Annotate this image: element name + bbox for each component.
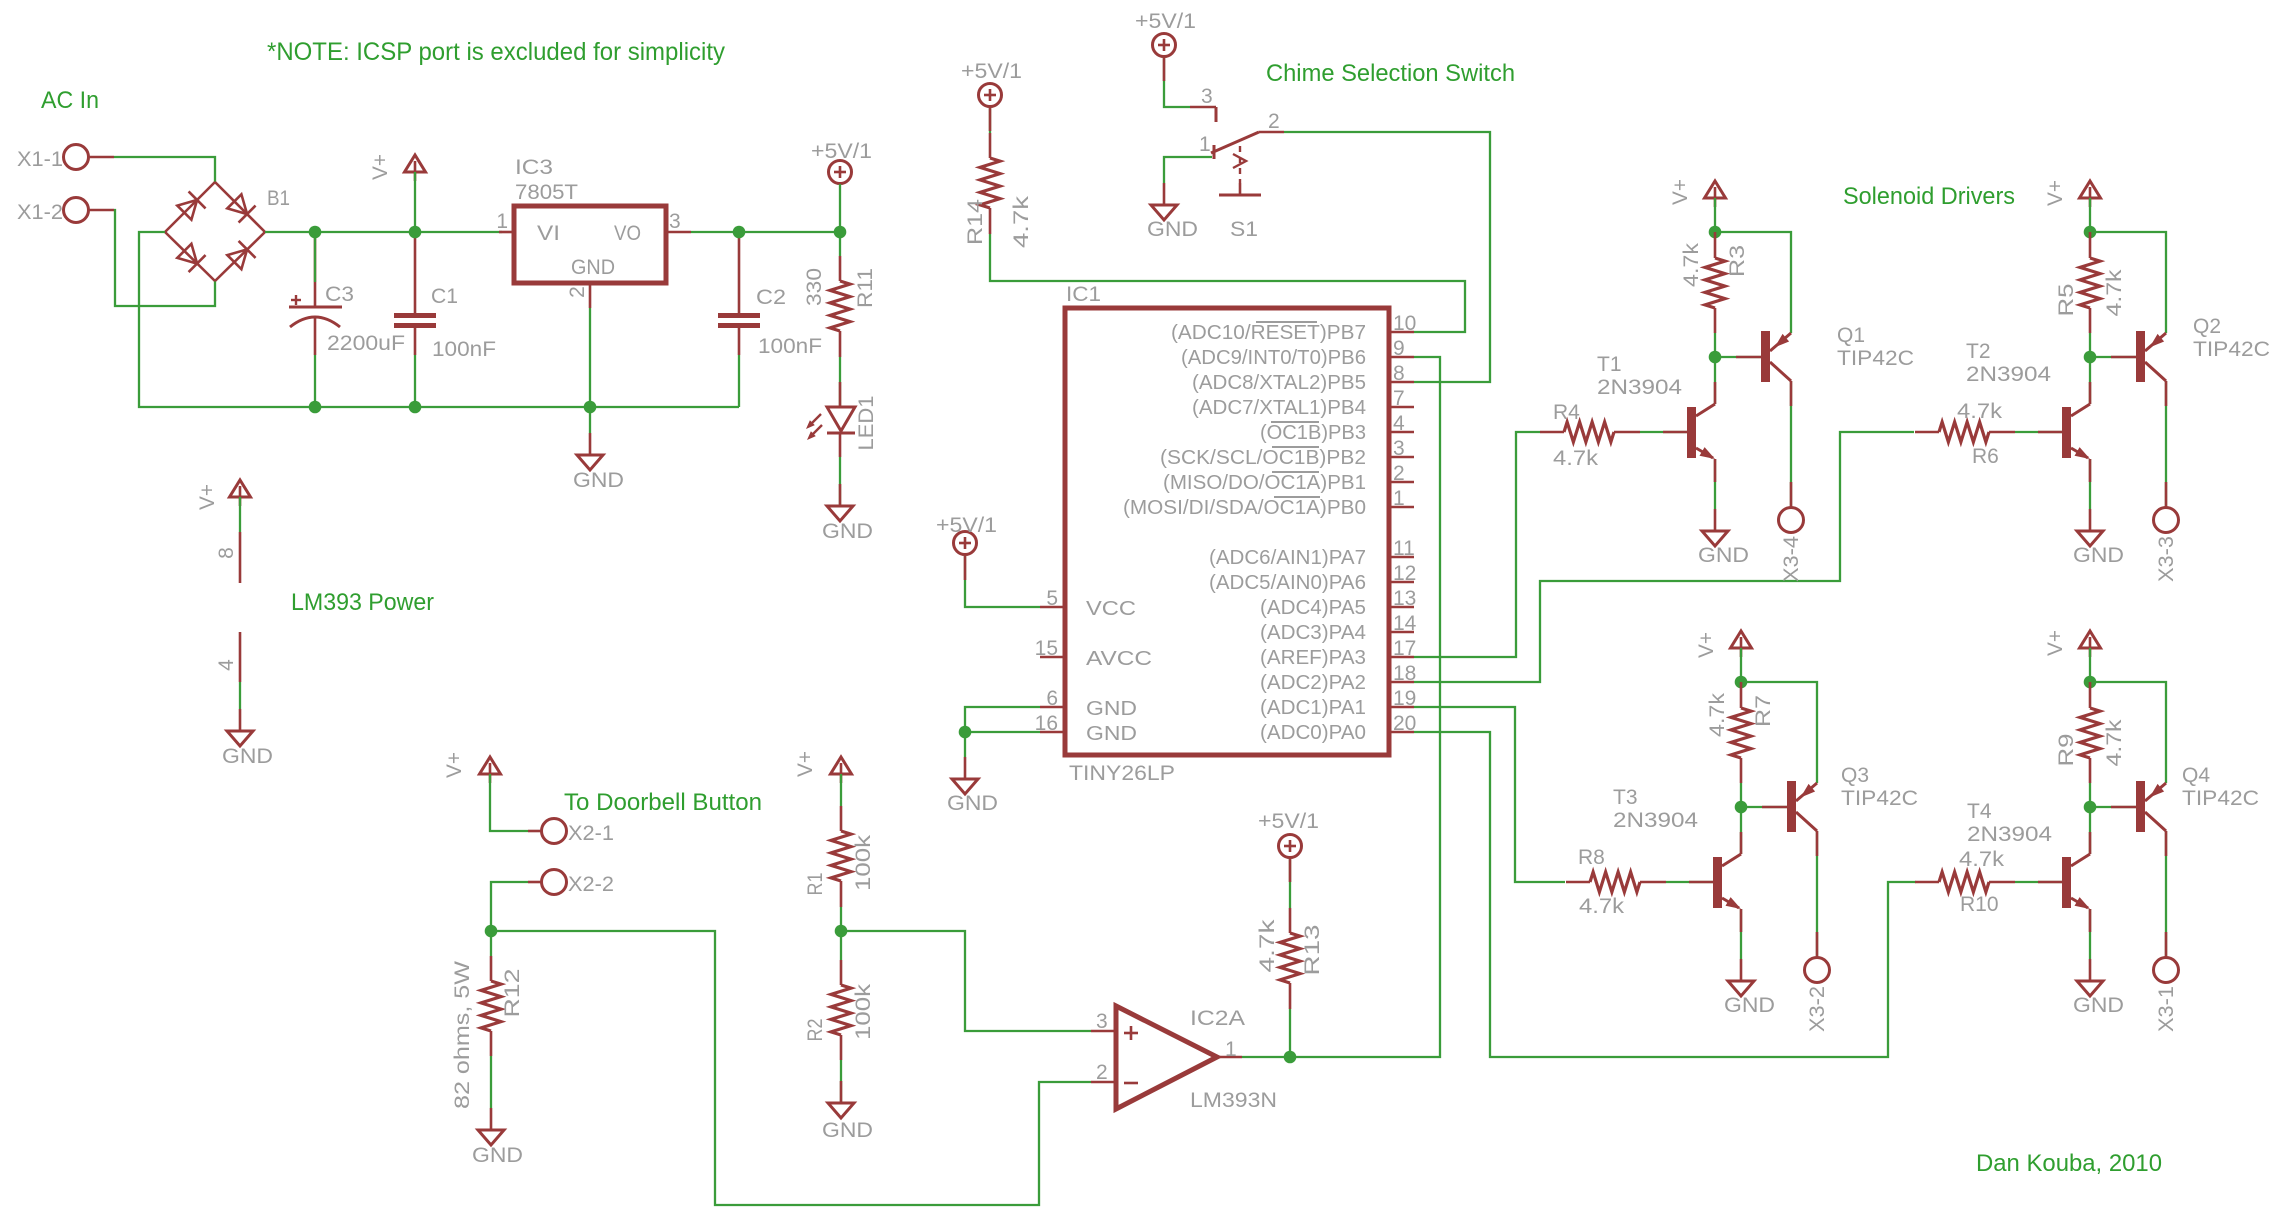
svg-text:(ADC5/AIN0)PA6: (ADC5/AIN0)PA6 — [1209, 572, 1366, 594]
IC1 pin 10 (ADC10/RESET)PB7 — [1171, 312, 1416, 344]
node junction — [835, 925, 848, 938]
wire — [1242, 1056, 1290, 1058]
node junction — [1735, 676, 1748, 689]
IC1 pin 2 (MISO/DO/OC1A)PB1 — [1163, 462, 1414, 494]
pin 8 (LM393 V+) — [215, 497, 240, 583]
wire — [314, 355, 316, 407]
svg-text:100nF: 100nF — [758, 335, 822, 358]
IC1 pin 8 (ADC8/XTAL2)PB5 — [1192, 362, 1414, 394]
svg-text:330: 330 — [803, 268, 826, 306]
wire (to comparator minus input) — [491, 931, 1091, 1205]
resistor R4 4.7k — [1540, 401, 1640, 470]
wire — [414, 172, 416, 232]
node junction — [733, 226, 746, 239]
node junction — [1284, 1051, 1297, 1064]
wire (V+ to Q4 emitter) — [2090, 682, 2166, 783]
svg-text:(ADC3)PA4: (ADC3)PA4 — [1260, 622, 1366, 644]
svg-text:15: 15 — [1035, 637, 1058, 660]
resistor R10 4.7k — [1915, 848, 2015, 916]
IC1 pin 17 (AREF)PA3 — [1260, 637, 1416, 669]
wire — [1714, 459, 1716, 509]
svg-text:LM393N: LM393N — [1190, 1089, 1277, 1112]
resistor R12 82 ohms 5W — [451, 956, 524, 1109]
resistor R7 4.7k — [1706, 682, 1775, 783]
wire — [839, 457, 841, 506]
svg-text:TIP42C: TIP42C — [1841, 787, 1918, 810]
svg-text:T2: T2 — [1966, 340, 1991, 363]
svg-text:TIP42C: TIP42C — [2193, 338, 2270, 361]
node junction — [2084, 801, 2097, 814]
svg-text:(MOSI/DI/SDA/OC1A)PB0: (MOSI/DI/SDA/OC1A)PB0 — [1123, 497, 1366, 519]
svg-text:100nF: 100nF — [432, 338, 496, 361]
IC1 pin 4 (OC1B)PB3 — [1260, 412, 1414, 444]
connector X2-2 — [528, 870, 614, 897]
svg-text:Q3: Q3 — [1841, 764, 1869, 787]
svg-text:(ADC10/RESET)PB7: (ADC10/RESET)PB7 — [1171, 322, 1366, 344]
wire — [1714, 357, 1716, 404]
supply +5V/1 (regulator output) — [829, 161, 852, 184]
wire — [490, 931, 492, 956]
svg-text:GND: GND — [222, 745, 273, 768]
svg-text:3: 3 — [669, 210, 681, 233]
node junction — [1709, 351, 1722, 364]
wire — [1740, 807, 1742, 854]
wire — [2165, 831, 2167, 957]
svg-text:X3-4: X3-4 — [1780, 536, 1803, 582]
svg-text:(ADC6/AIN1)PA7: (ADC6/AIN1)PA7 — [1209, 547, 1366, 569]
svg-text:(OC1B)PB3: (OC1B)PB3 — [1260, 422, 1366, 444]
svg-text:2: 2 — [1393, 462, 1405, 485]
svg-text:4.7k: 4.7k — [1959, 848, 2005, 871]
overline RESET (PB7) — [1256, 321, 1317, 323]
svg-text:X2-1: X2-1 — [568, 822, 614, 845]
svg-text:V+: V+ — [443, 752, 466, 778]
svg-text:10: 10 — [1393, 312, 1416, 335]
svg-text:+5V/1: +5V/1 — [961, 60, 1022, 83]
svg-text:(ADC1)PA1: (ADC1)PA1 — [1260, 697, 1366, 719]
svg-text:2200uF: 2200uF — [327, 332, 405, 355]
svg-text:12: 12 — [1393, 562, 1416, 585]
bridge rectifier B1 — [165, 182, 290, 281]
svg-text:R7: R7 — [1752, 695, 1775, 727]
svg-text:R3: R3 — [1726, 245, 1749, 277]
wire — [1740, 648, 1742, 682]
svg-text:R10: R10 — [1960, 893, 1999, 916]
transistor T2 2N3904 (NPN) — [1966, 340, 2090, 459]
svg-text:+5V/1: +5V/1 — [936, 514, 997, 537]
svg-text:AC In: AC In — [41, 87, 99, 114]
svg-text:4.7k: 4.7k — [1010, 195, 1033, 248]
svg-text:1: 1 — [1225, 1038, 1237, 1061]
wire — [990, 234, 1465, 332]
svg-text:4: 4 — [215, 659, 238, 671]
svg-text:2: 2 — [1268, 110, 1280, 133]
svg-text:V+: V+ — [794, 751, 817, 777]
supply V+ (doorbell) — [480, 757, 501, 774]
svg-text:V+: V+ — [1669, 179, 1692, 205]
svg-text:2N3904: 2N3904 — [1597, 376, 1682, 399]
node junction — [409, 401, 422, 414]
svg-text:GND: GND — [1698, 544, 1749, 567]
svg-text:4.7k: 4.7k — [2103, 269, 2126, 317]
node junction — [485, 925, 498, 938]
ground (regulator) — [573, 433, 624, 492]
wire — [589, 308, 591, 433]
IC1 pin 7 (ADC7/XTAL1)PB4 — [1192, 387, 1414, 419]
ground (T1) — [1698, 509, 1749, 567]
svg-text:GND: GND — [571, 256, 615, 279]
supply V+ (T1 section) — [1705, 181, 1726, 198]
resistor R1 100k — [804, 806, 875, 907]
node junction — [2084, 226, 2097, 239]
svg-text:13: 13 — [1393, 587, 1416, 610]
svg-text:T4: T4 — [1967, 800, 1992, 823]
svg-text:11: 11 — [1393, 537, 1415, 560]
svg-text:82 ohms, 5W: 82 ohms, 5W — [451, 961, 474, 1109]
IC1 pin 20 (ADC0)PA0 — [1260, 712, 1416, 744]
wire — [1790, 381, 1792, 507]
wire (S1 pin2 to PB5) — [1284, 132, 1490, 382]
svg-text:2: 2 — [1096, 1061, 1108, 1084]
transistor T1 2N3904 (NPN) — [1597, 353, 1715, 459]
resistor R9 4.7k — [2055, 682, 2126, 783]
svg-text:GND: GND — [1086, 723, 1137, 745]
svg-text:R2: R2 — [804, 1019, 827, 1042]
svg-text:20: 20 — [1393, 712, 1416, 735]
svg-text:8: 8 — [215, 547, 238, 559]
svg-text:17: 17 — [1393, 637, 1416, 660]
svg-text:(ADC2)PA2: (ADC2)PA2 — [1260, 672, 1366, 694]
resistor R13 4.7k — [1256, 908, 1324, 1009]
svg-text:LED1: LED1 — [855, 396, 878, 451]
svg-text:6: 6 — [1046, 687, 1058, 710]
IC1 pin 18 (ADC2)PA2 — [1260, 662, 1416, 694]
wire — [840, 1060, 842, 1103]
svg-text:2: 2 — [566, 286, 589, 298]
svg-text:IC2A: IC2A — [1190, 1007, 1245, 1030]
connector X1-1 — [17, 145, 114, 172]
supply V+ (T4 section) — [2080, 631, 2101, 648]
svg-text:3: 3 — [1201, 85, 1213, 108]
svg-text:(ADC7/XTAL1)PB4: (ADC7/XTAL1)PB4 — [1192, 397, 1366, 419]
wire — [840, 931, 842, 960]
svg-text:R9: R9 — [2055, 734, 2078, 767]
svg-text:+5V/1: +5V/1 — [1135, 10, 1196, 33]
wire — [2089, 909, 2091, 959]
node junction — [834, 226, 847, 239]
svg-text:(AREF)PA3: (AREF)PA3 — [1260, 647, 1366, 669]
wire — [1816, 831, 1818, 957]
node junction — [2084, 351, 2097, 364]
wire — [1740, 909, 1742, 959]
capacitor C3 — [289, 232, 405, 355]
svg-text:R1: R1 — [804, 873, 827, 896]
svg-text:GND: GND — [1086, 698, 1137, 720]
svg-text:C2: C2 — [756, 286, 786, 309]
wire — [2089, 807, 2091, 854]
svg-text:VI: VI — [537, 222, 560, 245]
supply +5V/1 (VCC) — [954, 532, 977, 555]
resistor R8 4.7k — [1566, 846, 1666, 918]
svg-text:GND: GND — [1147, 218, 1198, 241]
resistor R3 4.7k — [1680, 232, 1749, 333]
node junction — [409, 226, 422, 239]
svg-text:4.7k: 4.7k — [2103, 719, 2126, 767]
svg-text:+5V/1: +5V/1 — [811, 140, 872, 163]
svg-text:GND: GND — [1724, 994, 1775, 1017]
svg-text:5: 5 — [1046, 587, 1058, 610]
svg-text:*NOTE: ICSP port is excluded f: *NOTE: ICSP port is excluded for simplic… — [267, 38, 725, 66]
svg-text:LM393 Power: LM393 Power — [291, 589, 434, 616]
connector X1-2 — [17, 198, 114, 225]
svg-text:IC1: IC1 — [1066, 283, 1101, 306]
wire — [2165, 381, 2167, 507]
overline OC1A (PB1) — [1272, 471, 1319, 473]
switch S1 — [1190, 85, 1284, 241]
svg-text:GND: GND — [947, 792, 998, 815]
supply V+ (regulator input) — [405, 155, 426, 172]
wire (V+ to Q2 emitter) — [2090, 232, 2166, 333]
svg-text:2N3904: 2N3904 — [1613, 809, 1698, 832]
supply +5V/1 (S1) — [1153, 34, 1176, 57]
svg-text:AVCC: AVCC — [1086, 648, 1152, 670]
svg-text:TIP42C: TIP42C — [1837, 347, 1914, 370]
ground (LM393) — [222, 709, 273, 768]
wire — [2090, 333, 2136, 357]
resistor R2 100k — [804, 960, 875, 1060]
wire (V+ to Q3 emitter) — [1741, 682, 1817, 783]
svg-text:R12: R12 — [501, 969, 524, 1018]
svg-text:Q4: Q4 — [2182, 764, 2210, 787]
svg-text:GND: GND — [822, 520, 873, 543]
wire — [2090, 783, 2136, 807]
wire — [114, 210, 215, 306]
ground (S1) — [1147, 183, 1198, 241]
svg-text:4.7k: 4.7k — [1579, 895, 1625, 918]
svg-text:R11: R11 — [854, 268, 877, 308]
svg-text:GND: GND — [822, 1119, 873, 1142]
IC1 pin 15 AVCC — [1035, 637, 1152, 670]
IC1 pin 1 (MOSI/DI/SDA/OC1A)PB0 — [1123, 487, 1414, 519]
svg-text:X3-3: X3-3 — [2155, 536, 2178, 582]
resistor R14 4.7k — [964, 133, 1033, 248]
svg-text:2N3904: 2N3904 — [1967, 823, 2052, 846]
resistor R5 4.7k — [2055, 232, 2126, 333]
wire — [989, 107, 991, 133]
wire — [2089, 357, 2091, 404]
wire — [265, 231, 502, 233]
wire — [839, 357, 841, 406]
svg-text:To Doorbell Button: To Doorbell Button — [564, 789, 762, 816]
wire (V+ to Q1 emitter) — [1715, 232, 1791, 333]
transistor Q2 TIP42C (PNP) — [2111, 315, 2270, 382]
wire — [114, 157, 215, 182]
IC1 pin 14 (ADC3)PA4 — [1260, 612, 1417, 644]
svg-text:S1: S1 — [1230, 218, 1258, 241]
svg-text:(ADC8/XTAL2)PB5: (ADC8/XTAL2)PB5 — [1192, 372, 1366, 394]
node junction — [959, 726, 972, 739]
wire — [840, 907, 842, 931]
wire — [1666, 881, 1713, 883]
ground (T3) — [1724, 959, 1775, 1017]
svg-text:R5: R5 — [2055, 284, 2078, 317]
voltage regulator IC3 7805T — [496, 156, 691, 308]
svg-text:GND: GND — [2073, 544, 2124, 567]
svg-text:1: 1 — [1393, 487, 1405, 510]
wire — [2089, 198, 2091, 232]
svg-text:Solenoid Drivers: Solenoid Drivers — [1843, 183, 2015, 210]
svg-text:C1: C1 — [431, 285, 458, 308]
capacitor C2 — [718, 232, 822, 358]
svg-text:X3-2: X3-2 — [1806, 986, 1829, 1032]
svg-text:7: 7 — [1393, 387, 1405, 410]
wire — [1741, 783, 1787, 807]
supply V+ (LM393 power) — [230, 480, 251, 497]
svg-text:R13: R13 — [1301, 925, 1324, 976]
wire — [414, 355, 416, 407]
wire — [691, 231, 840, 233]
ground (IC1) — [947, 757, 998, 815]
node junction — [1709, 226, 1722, 239]
svg-text:X1-2: X1-2 — [17, 201, 63, 224]
ground (R2) — [822, 1081, 873, 1142]
svg-text:T3: T3 — [1613, 786, 1638, 809]
svg-text:R6: R6 — [1972, 445, 1999, 468]
resistor R11 330 — [803, 256, 877, 357]
svg-text:Dan Kouba, 2010: Dan Kouba, 2010 — [1976, 1150, 2162, 1177]
svg-text:GND: GND — [573, 469, 624, 492]
wire — [840, 774, 842, 806]
svg-text:19: 19 — [1393, 687, 1416, 710]
transistor T3 2N3904 (NPN) — [1613, 786, 1741, 909]
transistor Q1 TIP42C (PNP) — [1736, 324, 1914, 382]
LED LED1 — [806, 382, 878, 457]
svg-text:R4: R4 — [1553, 401, 1580, 424]
svg-text:100k: 100k — [852, 983, 875, 1040]
svg-text:3: 3 — [1096, 1010, 1108, 1033]
wire (to comparator plus input) — [841, 931, 1091, 1031]
supply V+ (T2 section) — [2080, 181, 2101, 198]
wire — [2089, 459, 2091, 509]
svg-text:V+: V+ — [2044, 630, 2067, 656]
IC1 pin 16 GND — [1035, 712, 1137, 745]
svg-text:Chime Selection Switch: Chime Selection Switch — [1266, 60, 1515, 87]
node junction — [1735, 801, 1748, 814]
svg-text:+5V/1: +5V/1 — [1258, 810, 1319, 833]
wire — [490, 774, 528, 831]
node junction — [584, 401, 597, 414]
svg-text:7805T: 7805T — [515, 181, 578, 204]
wire — [491, 882, 528, 931]
IC1 pin 6 GND — [1040, 687, 1137, 720]
svg-text:(SCK/SCL/OC1B)PB2: (SCK/SCL/OC1B)PB2 — [1160, 447, 1366, 469]
svg-text:TIP42C: TIP42C — [2182, 787, 2259, 810]
transistor Q4 TIP42C (PNP) — [2111, 764, 2259, 832]
svg-text:GND: GND — [2073, 994, 2124, 1017]
svg-text:V+: V+ — [196, 484, 219, 510]
IC1 pin 5 VCC — [1040, 587, 1136, 620]
svg-text:B1: B1 — [267, 187, 290, 210]
wire (PA2 to R6) — [1414, 432, 1914, 682]
wire — [490, 1056, 492, 1108]
IC1 pin 13 (ADC4)PA5 — [1260, 587, 1416, 619]
wire — [965, 555, 1040, 607]
wire — [2089, 648, 2091, 682]
pin 4 (LM393 GND) — [215, 632, 240, 709]
overline OC1B (PB3) — [1271, 421, 1319, 423]
svg-text:(MISO/DO/OC1A)PB1: (MISO/DO/OC1A)PB1 — [1163, 472, 1366, 494]
connector X3-4 — [1779, 508, 1804, 583]
svg-text:4: 4 — [1393, 412, 1405, 435]
svg-text:V+: V+ — [369, 154, 392, 180]
svg-text:Q2: Q2 — [2193, 315, 2221, 338]
svg-text:IC3: IC3 — [515, 156, 553, 179]
wire — [314, 232, 316, 282]
supply +5V/1 (R14) — [979, 84, 1002, 107]
wire — [1164, 57, 1190, 107]
IC1 pin 9 (ADC9/INT0/T0)PB6 — [1181, 337, 1414, 369]
wire — [1289, 858, 1291, 908]
node junction — [2084, 676, 2097, 689]
overline OC1B (PB2) — [1272, 446, 1319, 448]
svg-text:4.7k: 4.7k — [1680, 242, 1703, 287]
svg-text:VCC: VCC — [1086, 598, 1136, 620]
node junction — [309, 226, 322, 239]
resistor R6 4.7k — [1915, 400, 2015, 468]
svg-text:100k: 100k — [852, 834, 875, 891]
svg-text:14: 14 — [1393, 612, 1417, 635]
svg-text:X2-2: X2-2 — [568, 873, 614, 896]
wire (PA3 to R4) — [1414, 432, 1540, 657]
wire — [965, 707, 1040, 757]
wire — [1164, 157, 1212, 183]
wire — [1289, 1009, 1291, 1057]
svg-text:Q1: Q1 — [1837, 324, 1865, 347]
connector X2-1 — [528, 819, 614, 846]
svg-text:9: 9 — [1393, 337, 1405, 360]
svg-text:X1-1: X1-1 — [17, 148, 63, 171]
svg-text:X3-1: X3-1 — [2155, 986, 2178, 1032]
svg-text:VO: VO — [614, 222, 641, 245]
capacitor C1 — [394, 232, 496, 361]
IC1 pin 11 (ADC6/AIN1)PA7 — [1209, 537, 1415, 569]
microcontroller IC1 TINY26LP — [1065, 283, 1389, 785]
ground (T2) — [2073, 509, 2124, 567]
wire — [1715, 333, 1761, 357]
svg-text:R14: R14 — [964, 199, 987, 245]
connector X3-2 — [1805, 958, 1830, 1033]
svg-text:V+: V+ — [1695, 632, 1718, 658]
svg-text:V+: V+ — [2044, 180, 2067, 206]
svg-text:GND: GND — [472, 1144, 523, 1167]
svg-text:3: 3 — [1393, 437, 1405, 460]
wire — [965, 731, 1040, 733]
supply V+ (T3 section) — [1731, 631, 1752, 648]
wire — [139, 232, 739, 407]
svg-text:4.7k: 4.7k — [1706, 692, 1729, 737]
wire — [2015, 881, 2062, 883]
overline OC1A (PB0) — [1274, 496, 1320, 498]
wire (PA0 to R10) — [1414, 732, 1916, 1057]
IC1 pin 12 (ADC5/AIN0)PA6 — [1209, 562, 1416, 594]
wire — [839, 184, 841, 256]
supply +5V/1 (R13) — [1279, 835, 1302, 858]
supply V+ (divider) — [831, 757, 852, 774]
IC1 pin 19 (ADC1)PA1 — [1260, 687, 1416, 719]
svg-text:8: 8 — [1393, 362, 1405, 385]
svg-text:R8: R8 — [1578, 846, 1605, 869]
svg-text:1: 1 — [1199, 133, 1211, 156]
